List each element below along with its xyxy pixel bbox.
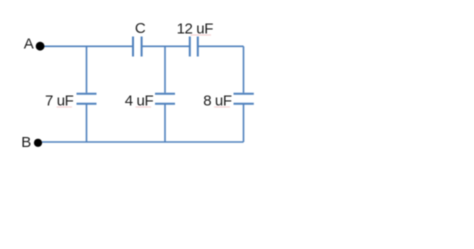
svg-text:A: A bbox=[24, 36, 34, 53]
svg-text:B: B bbox=[21, 134, 31, 151]
svg-text:C: C bbox=[135, 20, 146, 37]
